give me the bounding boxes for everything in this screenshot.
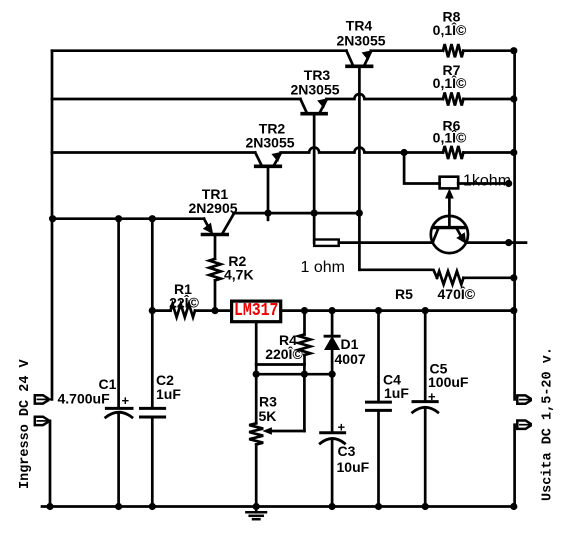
junction: left bus / TR1 rail — [49, 215, 56, 222]
svg-text:TR4: TR4 — [346, 18, 373, 34]
svg-text:C3: C3 — [338, 443, 356, 459]
resistor R4 zigzag — [299, 334, 311, 355]
resistor R2 zigzag — [209, 259, 221, 281]
wire: D1 top lead — [331, 311, 334, 337]
wire: TR2 base rail — [52, 151, 255, 154]
wire: C3 bottom lead — [331, 439, 334, 507]
capacitor C1 flat plate — [106, 407, 132, 410]
capacitor C3 top lead — [331, 374, 334, 431]
transistor TR2 2N3055 base lead — [255, 153, 261, 166]
junction: R2 bottom — [211, 307, 218, 314]
svg-text:220Î©: 220Î© — [265, 345, 303, 362]
wire: right output bus vertical — [513, 51, 516, 400]
capacitor C1 curved plate — [106, 412, 132, 417]
junction: TR3 collector — [311, 210, 318, 217]
junction: R4 top — [301, 307, 308, 314]
wire: LM317 output rail to right bus — [281, 309, 515, 312]
transistor TR4 emitter with arrow — [365, 52, 371, 64]
capacitor C3 flat plate — [321, 431, 345, 434]
junction: C5 top — [422, 307, 429, 314]
junction: R1 / C2 tap — [149, 307, 156, 314]
ground symbol — [246, 507, 266, 520]
wire: R5 to right bus — [464, 276, 515, 279]
transistor TR2 base bar — [256, 165, 281, 169]
wire: TR3 collector vertical down to 1 ohm resistor — [313, 115, 316, 243]
wire: LM317 ADJ pin down — [255, 322, 258, 375]
junction: trimmer right lead — [505, 180, 512, 187]
wire: C4 bottom lead — [377, 410, 380, 506]
wire: driver emitter out to right — [466, 241, 526, 244]
transistor TR3 2N3055 base lead — [300, 99, 306, 112]
wire: branch from TR2 rail down to trimmer — [404, 153, 440, 184]
svg-text:1 ohm: 1 ohm — [301, 259, 345, 276]
transistor TR4 2N3055 base lead — [346, 51, 352, 65]
junction: C5 bottom — [422, 503, 429, 510]
svg-text:Ingresso DC 24 V: Ingresso DC 24 V — [18, 358, 33, 489]
wire: R8 to right bus — [463, 49, 514, 52]
svg-text:2N3055: 2N3055 — [245, 135, 294, 151]
svg-text:470Î©: 470Î© — [438, 285, 476, 302]
junction: R3 bottom / ground — [253, 503, 260, 510]
wire: TR3 base rail — [52, 98, 300, 101]
svg-text:0,1Î©: 0,1Î© — [433, 21, 467, 38]
svg-text:4,7K: 4,7K — [224, 267, 254, 283]
junction: C4 bottom — [375, 503, 382, 510]
wire: 1 ohm resistor to driver transistor — [339, 241, 433, 244]
junction: ADJ rail / R3 top — [253, 371, 260, 378]
terminal output + (upper right) — [517, 395, 530, 403]
wire: R4 bottom lead — [303, 355, 306, 365]
transistor TR3 base bar — [302, 112, 326, 116]
junction: R7 / right bus — [510, 95, 517, 102]
junction: C2 top — [149, 215, 156, 222]
wire: ADJ to R4 bottom link — [256, 363, 304, 366]
resistor R6 zigzag — [443, 146, 463, 159]
svg-text:22Î©: 22Î© — [169, 294, 199, 311]
resistor 1 ohm (box style) — [314, 240, 339, 246]
svg-text:2N2905: 2N2905 — [188, 200, 237, 216]
wire: R3 top lead — [255, 374, 258, 423]
wire: TR1 base lead down to R2 — [214, 236, 217, 259]
wire: C2 bottom lead — [151, 417, 154, 507]
IC U1 LM317 box — [232, 301, 281, 322]
junction: C1 top — [115, 215, 122, 222]
svg-text:Uscita DC 1,5-20 v.: Uscita DC 1,5-20 v. — [541, 347, 556, 501]
transistor TR1 collector slant — [223, 213, 234, 232]
transistor TR1 2N2905 emitter with arrow into bar — [204, 219, 209, 229]
wire: R6 to right bus — [463, 151, 514, 154]
resistor R5 zigzag — [437, 271, 464, 284]
wire: lower input terminal drop — [49, 421, 52, 507]
trimmer 1kohm box — [440, 177, 459, 189]
svg-text:LM317: LM317 — [234, 301, 279, 321]
junction: R6 / right bus — [510, 149, 517, 156]
svg-text:0,1Î©: 0,1Î© — [433, 74, 467, 91]
junction: right bus / ground rail — [510, 503, 517, 510]
wire: driver base up to trimmer wiper — [448, 196, 451, 228]
wire: TR4 collector corner to R5 — [359, 270, 437, 278]
transistor driver collector slant — [433, 228, 439, 243]
resistor R8 zigzag — [443, 44, 463, 57]
resistor R7 zigzag — [443, 92, 463, 105]
wire: R3 wiper vertical — [303, 365, 306, 432]
wire: C5 bottom lead — [424, 408, 427, 507]
wire: TR4 base rail (top) — [52, 49, 346, 52]
svg-text:1uF: 1uF — [384, 385, 409, 401]
capacitor C5 flat plate — [413, 400, 437, 403]
potentiometer R3 zigzag — [249, 423, 263, 444]
transistor driver circle — [431, 216, 468, 253]
svg-text:4007: 4007 — [335, 351, 366, 367]
junction: output rail / right bus — [510, 307, 517, 314]
wire: bottom ground rail — [42, 505, 515, 508]
terminal input + (upper left) — [35, 395, 48, 403]
transistor TR3 emitter with arrow — [320, 100, 326, 112]
svg-text:10uF: 10uF — [337, 459, 370, 475]
wire: ADJ rail to D1/C3 — [256, 373, 332, 376]
junction: R5 / right bus — [510, 274, 517, 281]
transistor TR2 emitter with arrow — [274, 154, 280, 165]
junction: R8 / right bus — [510, 47, 517, 54]
transistor TR1 base bar — [203, 233, 228, 237]
wire: TR1 collector node rail — [234, 212, 360, 215]
junction: C4 top — [375, 307, 382, 314]
wire: TR3 emitter to R7 with hop over TR4 collector — [326, 94, 443, 99]
terminal output - (lower right) — [517, 421, 530, 429]
svg-text:+: + — [122, 393, 130, 408]
svg-text:R5: R5 — [395, 286, 413, 302]
junction: TR4 collector — [356, 210, 363, 217]
wire: D1 bottom lead — [331, 349, 334, 374]
svg-text:1kohm: 1kohm — [463, 172, 511, 189]
wire: R4 top lead — [303, 311, 306, 335]
capacitor C3 curved plate — [320, 439, 344, 444]
junction: ADJ rail / wiper — [301, 371, 308, 378]
svg-text:4.700uF: 4.700uF — [58, 391, 111, 407]
junction: C3 bottom — [329, 503, 336, 510]
svg-text:2N3055: 2N3055 — [290, 82, 339, 98]
svg-text:D1: D1 — [341, 336, 359, 352]
wire: TR2 emitter to R6 with hops over TR3 and TR4 collectors — [281, 148, 443, 153]
wire: TR4 collector vertical — [358, 67, 361, 270]
svg-text:5K: 5K — [259, 408, 277, 424]
wire: R3 bottom to ground rail — [255, 445, 258, 507]
junction: D1 anode / C3 top — [329, 371, 336, 378]
wire: R2 to LM317 input rail — [214, 280, 217, 310]
resistor R1 zigzag — [171, 304, 196, 317]
diode D1 cathode bar — [325, 335, 339, 338]
svg-text:+: + — [338, 420, 346, 435]
capacitor C1 top lead — [117, 219, 120, 408]
capacitor C2 plates — [141, 407, 165, 410]
svg-text:100uF: 100uF — [428, 374, 469, 390]
junction: input minus / ground rail — [46, 503, 53, 510]
capacitor C4 plates — [367, 401, 391, 404]
transistor driver base bar — [435, 226, 464, 229]
transistor driver emitter with arrow — [456, 228, 462, 239]
wire: lower right bus to bottom rail — [513, 425, 516, 507]
svg-text:1uF: 1uF — [156, 386, 181, 402]
junction: C1 bottom — [115, 503, 122, 510]
terminal input - (lower left) — [35, 417, 48, 425]
junction: trimmer branch — [401, 149, 408, 156]
wire: TR1 base/emitter rail from left bus — [52, 217, 204, 220]
wire: C1 bottom lead — [117, 413, 120, 507]
svg-text:2N3055: 2N3055 — [336, 33, 385, 49]
capacitor C2 top lead — [151, 219, 154, 408]
wire: left +24V bus vertical — [51, 51, 54, 400]
junction: driver emitter — [505, 239, 512, 246]
svg-text:0,1Î©: 0,1Î© — [433, 129, 467, 146]
transistor TR4 base bar — [347, 65, 372, 69]
junction: TR2 collector — [264, 210, 271, 217]
svg-text:+: + — [428, 389, 436, 404]
wire: C2 tap to R1 — [152, 309, 170, 312]
wire: R7 to right bus — [463, 98, 514, 101]
junction: C2 bottom — [149, 503, 156, 510]
junction: D1 top — [329, 307, 336, 314]
wire: TR4 emitter to R8 — [371, 49, 443, 52]
wire: trimmer right lead — [458, 182, 509, 185]
capacitor C4 top lead — [377, 311, 380, 401]
capacitor C5 top lead — [424, 311, 427, 401]
wire: R1 to LM317 — [195, 309, 232, 312]
wire: R3 wiper arrow — [269, 430, 304, 433]
diode D1 triangle — [325, 338, 338, 350]
wire: TR2 collector to collector node — [267, 167, 270, 220]
capacitor C5 curved plate — [413, 407, 438, 412]
